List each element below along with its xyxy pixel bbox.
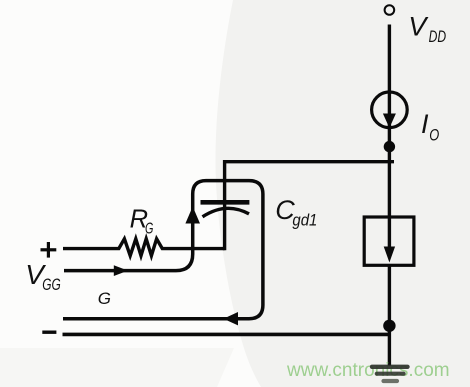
svg-text:G: G [145,220,153,237]
terminal circle VDD [385,5,395,15]
svg-text:G: G [98,289,111,308]
svg-text:O: O [429,126,439,144]
current source I_O [372,92,408,128]
svg-text:V: V [408,12,429,42]
device box (MOSFET channel) [364,217,414,265]
arrowhead up on loop [185,207,200,224]
wire: main rail top [388,25,391,248]
capacitor Cgd1 curved plate [203,208,250,217]
resistor R_G [63,239,225,256]
arrowhead right on lower VGG line [114,265,128,276]
minus terminal [42,331,56,334]
plus terminal [41,248,57,251]
background swoosh right [215,0,470,387]
background wedge bottom-left [0,348,234,387]
node: bottom junction dot [383,320,395,332]
wire: capacitor vertical [223,160,226,250]
svg-text:GG: GG [42,275,61,294]
wire: gate current loop [63,181,263,319]
svg-text:DD: DD [429,28,447,46]
svg-text:I: I [421,109,429,139]
node: junction dot below current source [384,141,395,152]
capacitor Cgd1 top plate [201,200,250,205]
svg-text:gd1: gd1 [292,210,317,229]
svg-text:www.cntronics.com: www.cntronics.com [286,360,450,381]
wire: drain horizontal [225,160,394,163]
arrowhead down in box [384,247,395,263]
ground [372,365,408,369]
arrowhead left on loop bottom [223,312,238,325]
wire: rail below box [388,265,391,366]
wire: bottom return [63,333,390,337]
arrowhead in current source [383,114,396,129]
